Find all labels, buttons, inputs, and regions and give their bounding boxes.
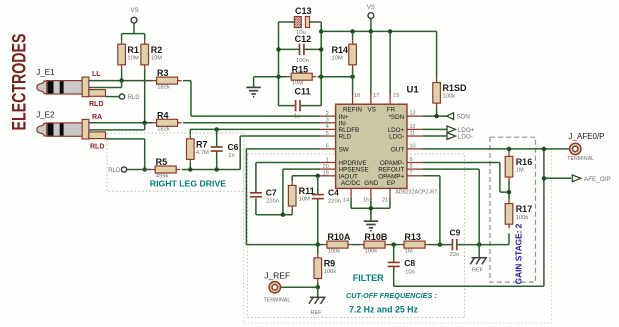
- capacitor C13 (polarized): [279, 21, 322, 23]
- svg-text:LDO-: LDO-: [458, 134, 473, 141]
- resistor R15: [287, 76, 291, 78]
- power flag VS (top middle): [368, 13, 374, 19]
- svg-text:VS: VS: [368, 107, 376, 114]
- svg-text:100n: 100n: [296, 58, 309, 64]
- U1 left pin stubs (2,3,4,5,6,1,20,19): [320, 115, 335, 117]
- wire R10A to R10B: [352, 244, 360, 246]
- power flag VS (left): [131, 17, 137, 23]
- U1 pin 17 VS stub: [370, 95, 372, 105]
- junction R7 bottom: [188, 167, 192, 171]
- U1 bottom pin stubs (14,16,21): [350, 188, 352, 197]
- wire C8 bottom to OUT net: [394, 149, 544, 286]
- ground (earth) near ladder: [246, 86, 260, 88]
- ground (earth) below U1: [364, 220, 378, 222]
- junction HPSENSE/C7/R11: [281, 213, 285, 217]
- wire OUT line to terminal: [422, 148, 570, 150]
- resistor R1: [121, 40, 123, 44]
- capacitor C9: [451, 239, 453, 250]
- svg-text:11: 11: [410, 131, 416, 137]
- wire HPDRIVE to C7: [256, 163, 320, 193]
- junction C6 top: [215, 127, 219, 131]
- wire REFOUT pin to REF node: [422, 169, 479, 245]
- resistor R10A: [323, 244, 327, 246]
- svg-text:1M: 1M: [516, 168, 524, 174]
- svg-text:VS: VS: [130, 8, 138, 14]
- wire C9 to R17 bottom: [457, 233, 509, 244]
- svg-text:OUT: OUT: [391, 147, 404, 154]
- svg-text:19: 19: [323, 171, 329, 177]
- svg-text:100k: 100k: [324, 269, 337, 275]
- svg-text:J_REF: J_REF: [264, 270, 290, 280]
- wire R13 to C9: [429, 244, 452, 246]
- wire J_REF to R9 bottom: [280, 286, 318, 288]
- wire R7 top to RLDFB line: [189, 129, 191, 169]
- svg-text:220n: 220n: [328, 199, 341, 205]
- svg-text:10: 10: [410, 143, 416, 149]
- wire REF node to rake ground: [478, 245, 480, 258]
- svg-text:22n: 22n: [450, 252, 460, 258]
- svg-text:SDN: SDN: [457, 114, 471, 121]
- svg-text:VS: VS: [367, 5, 375, 11]
- svg-text:C11: C11: [295, 87, 311, 97]
- U1 pin 15 FR stub: [389, 95, 391, 105]
- wire OPAMP+ pin to R13/C9 node: [422, 176, 440, 245]
- AFE_O/P arrow flag: [572, 175, 581, 182]
- wires U1 bottom pins to ground: [351, 198, 390, 221]
- capacitor C7: [250, 192, 262, 194]
- svg-text:R10A: R10A: [327, 232, 351, 242]
- jack connector J_E2 body: [37, 123, 47, 136]
- svg-text:R2: R2: [151, 45, 163, 55]
- wire ladder right rail: [320, 22, 322, 106]
- svg-text:182k: 182k: [157, 84, 170, 90]
- svg-text:SW: SW: [339, 147, 349, 154]
- svg-text:100k: 100k: [328, 248, 341, 254]
- svg-text:499k: 499k: [156, 173, 169, 179]
- svg-text:5: 5: [326, 131, 329, 137]
- svg-text:10M: 10M: [127, 55, 138, 61]
- svg-text:R16: R16: [516, 157, 533, 167]
- svg-text:18: 18: [354, 93, 360, 99]
- svg-text:REF: REF: [311, 310, 323, 316]
- svg-text:R10B: R10B: [364, 232, 388, 242]
- svg-text:C13: C13: [295, 6, 312, 16]
- resistor R16: [508, 149, 510, 153]
- FILTER dotted box: [248, 154, 465, 318]
- wire HPSENSE column: [283, 169, 320, 215]
- svg-text:J_AFE0/P: J_AFE0/P: [569, 132, 605, 141]
- svg-text:CUT-OFF FREQUENCIES :: CUT-OFF FREQUENCIES :: [346, 291, 437, 300]
- svg-text:RLD: RLD: [90, 143, 104, 150]
- svg-text:100k: 100k: [516, 215, 529, 221]
- resistor R14: [352, 31, 354, 40]
- wire R9 bottom to rake ground: [317, 287, 319, 297]
- svg-text:FR: FR: [387, 107, 396, 114]
- wire J_E2 tip to R4: [89, 122, 153, 124]
- wire J_E1 sleeve to RLD node: [106, 96, 120, 98]
- svg-text:AD8232ACPZ-R7: AD8232ACPZ-R7: [395, 189, 437, 195]
- junction C8 top: [392, 242, 396, 246]
- svg-text:REF: REF: [472, 267, 484, 273]
- svg-text:R7: R7: [196, 139, 208, 149]
- terminal J_AFE0/P: [570, 143, 581, 154]
- resistor R4: [153, 122, 157, 124]
- svg-text:2: 2: [326, 111, 329, 117]
- junction C4/R9/R10A: [316, 242, 320, 246]
- capacitor C11: [279, 105, 322, 107]
- wire R5 to RLD pin of U1: [182, 136, 321, 169]
- svg-text:1M: 1M: [405, 248, 413, 254]
- svg-text:4.7M: 4.7M: [196, 150, 209, 156]
- wire RLDFB line to U1 pin 4: [190, 128, 320, 130]
- wire SW to HPF node: [246, 149, 320, 245]
- svg-text:15: 15: [393, 93, 399, 99]
- svg-text:8: 8: [410, 164, 413, 170]
- svg-text:RLD: RLD: [89, 101, 103, 108]
- wire OPAMP- pin to R16/R17 junction: [422, 163, 509, 193]
- svg-text:GAIN STAGE: 2: GAIN STAGE: 2: [514, 223, 524, 284]
- U1 pin 18 REFIN stub: [352, 95, 354, 105]
- resistor R17: [508, 200, 510, 204]
- svg-text:182k: 182k: [157, 127, 170, 133]
- wire HPF node line: [246, 244, 323, 246]
- svg-text:FILTER: FILTER: [353, 273, 384, 283]
- svg-text:RLD: RLD: [108, 168, 121, 174]
- wire ladder to ground: [254, 77, 288, 87]
- svg-text:REFIN: REFIN: [343, 107, 362, 114]
- SDN arrow flag: [447, 113, 454, 120]
- wire J_E2 sleeve down to RLD net: [106, 139, 145, 170]
- svg-text:17: 17: [373, 93, 379, 99]
- svg-text:100k: 100k: [443, 94, 456, 100]
- svg-text:J_E2: J_E2: [36, 111, 55, 120]
- svg-text:14: 14: [343, 197, 349, 203]
- svg-text:*SDN: *SDN: [388, 114, 404, 121]
- svg-text:J_E1: J_E1: [36, 68, 55, 77]
- LDO+ arrow flag: [447, 126, 456, 133]
- svg-text:10M: 10M: [299, 197, 310, 203]
- junction REF node: [477, 242, 481, 246]
- svg-text:R15: R15: [292, 64, 309, 74]
- GAIN STAGE 2 dashed box: [490, 137, 536, 282]
- wire RLD node to R5: [127, 169, 152, 171]
- svg-text:C6: C6: [228, 142, 239, 152]
- resistor R11: [291, 181, 293, 185]
- svg-text:10n: 10n: [405, 269, 415, 275]
- svg-text:13: 13: [410, 111, 416, 117]
- U1 right pin stubs (13,12,11,10,9,8,7): [407, 115, 422, 117]
- wire AFE output branch: [544, 177, 571, 179]
- junction R16/R17: [508, 181, 510, 200]
- LDO- arrow flag: [447, 133, 456, 140]
- svg-text:RLD: RLD: [339, 134, 352, 141]
- resistor R2: [144, 40, 146, 44]
- svg-text:6: 6: [326, 144, 329, 150]
- svg-text:4: 4: [326, 124, 329, 130]
- wire R10B to R13: [389, 244, 400, 246]
- svg-text:R14: R14: [332, 45, 349, 55]
- junction C4 top: [316, 174, 320, 178]
- capacitor C8: [393, 245, 395, 287]
- svg-text:R9: R9: [324, 259, 336, 269]
- svg-text:C7: C7: [266, 188, 277, 198]
- svg-text:100k: 100k: [365, 248, 378, 254]
- node junction RA: [143, 121, 147, 125]
- resistor R1SD: [436, 31, 438, 78]
- capacitor C4: [317, 176, 319, 245]
- svg-text:C12: C12: [295, 34, 312, 44]
- svg-text:R1: R1: [127, 45, 139, 55]
- junction OPAMP+ column: [438, 242, 442, 246]
- wire REFIN column: [352, 77, 354, 95]
- svg-text:21: 21: [382, 197, 388, 203]
- wire IAOUT to R11: [292, 176, 320, 182]
- svg-text:10M: 10M: [332, 55, 343, 61]
- svg-text:7.2 Hz and 25 Hz: 7.2 Hz and 25 Hz: [349, 305, 419, 315]
- svg-text:220n: 220n: [266, 199, 279, 205]
- wire R2 bottom to RA node: [144, 69, 146, 123]
- wire R1 bottom to LL node: [121, 69, 123, 81]
- node RLD (open circle, J_E1): [119, 94, 124, 99]
- capacitor C6: [216, 129, 218, 169]
- svg-text:C4: C4: [328, 188, 339, 198]
- svg-text:U1: U1: [407, 85, 420, 96]
- svg-text:3: 3: [326, 118, 329, 124]
- svg-text:7: 7: [410, 170, 413, 176]
- svg-text:AC/DC: AC/DC: [341, 180, 361, 187]
- svg-text:1n: 1n: [228, 153, 234, 159]
- svg-text:TERMINAL: TERMINAL: [567, 156, 594, 162]
- svg-text:R13: R13: [404, 232, 421, 242]
- svg-text:TERMINAL: TERMINAL: [264, 298, 291, 304]
- resistor R7: [189, 135, 191, 139]
- ground REF (right): [471, 257, 487, 259]
- junction R9 bottom: [316, 285, 320, 289]
- svg-text:R1SD: R1SD: [443, 83, 468, 93]
- wire J_E1 ring loop: [89, 81, 122, 88]
- svg-text:R4: R4: [157, 110, 169, 120]
- wire VS column to U1: [370, 31, 372, 94]
- wire J_E2 ring loop: [89, 123, 145, 130]
- svg-text:16: 16: [363, 197, 369, 203]
- svg-text:1u: 1u: [294, 114, 300, 120]
- svg-text:9: 9: [410, 157, 413, 163]
- wire LDO+ line: [422, 128, 447, 130]
- resistor R13: [400, 244, 404, 246]
- svg-text:RA: RA: [92, 114, 102, 121]
- svg-text:R5: R5: [156, 157, 168, 167]
- node RLD (open circle, left): [121, 167, 126, 172]
- svg-text:R3: R3: [157, 68, 169, 78]
- svg-text:C9: C9: [450, 227, 461, 237]
- svg-text:EP: EP: [387, 180, 395, 187]
- resistor R3: [153, 80, 157, 82]
- wire J_E1 tip to R3: [89, 80, 153, 82]
- wire R15 to REFIN column: [318, 76, 353, 78]
- resistor R9: [317, 245, 319, 254]
- svg-text:AFE_O/P: AFE_O/P: [584, 176, 611, 183]
- terminal J_REF: [269, 282, 280, 293]
- RIGHT LEG DRIVE dotted box: [107, 133, 244, 191]
- wire SDN line: [422, 115, 447, 117]
- wire R3 to IN+ pin: [183, 81, 320, 117]
- ground REF (below R9): [310, 296, 326, 298]
- svg-text:R17: R17: [516, 204, 533, 214]
- resistor R5: [151, 169, 155, 171]
- resistor R10B: [360, 244, 364, 246]
- node junction LL: [119, 78, 123, 82]
- svg-text:GND: GND: [364, 180, 378, 187]
- svg-text:LL: LL: [92, 71, 101, 78]
- svg-text:LDO-: LDO-: [389, 134, 404, 141]
- svg-text:10M: 10M: [151, 55, 162, 61]
- capacitor C12: [279, 48, 322, 50]
- jack connector J_E1 body: [37, 81, 47, 94]
- wire top rail: [321, 30, 436, 32]
- svg-text:1: 1: [326, 157, 329, 163]
- outer dotted region box: [244, 149, 552, 323]
- wire R4 to IN- pin: [183, 122, 320, 124]
- junction C6 bottom: [215, 167, 219, 171]
- svg-text:RLD: RLD: [128, 95, 141, 101]
- svg-text:20: 20: [323, 164, 329, 170]
- svg-text:RIGHT LEG DRIVE: RIGHT LEG DRIVE: [150, 179, 226, 189]
- svg-text:ELECTRODES: ELECTRODES: [10, 34, 31, 131]
- wire ladder left rail: [278, 22, 280, 106]
- wire FR column to U1: [389, 31, 391, 94]
- wire LDO- line: [422, 135, 447, 137]
- svg-text:12: 12: [410, 124, 416, 130]
- svg-text:C8: C8: [404, 258, 415, 268]
- op-amp IC U1 AD8232 body: [336, 104, 407, 188]
- wire VS to R1/R2 tops: [122, 23, 145, 40]
